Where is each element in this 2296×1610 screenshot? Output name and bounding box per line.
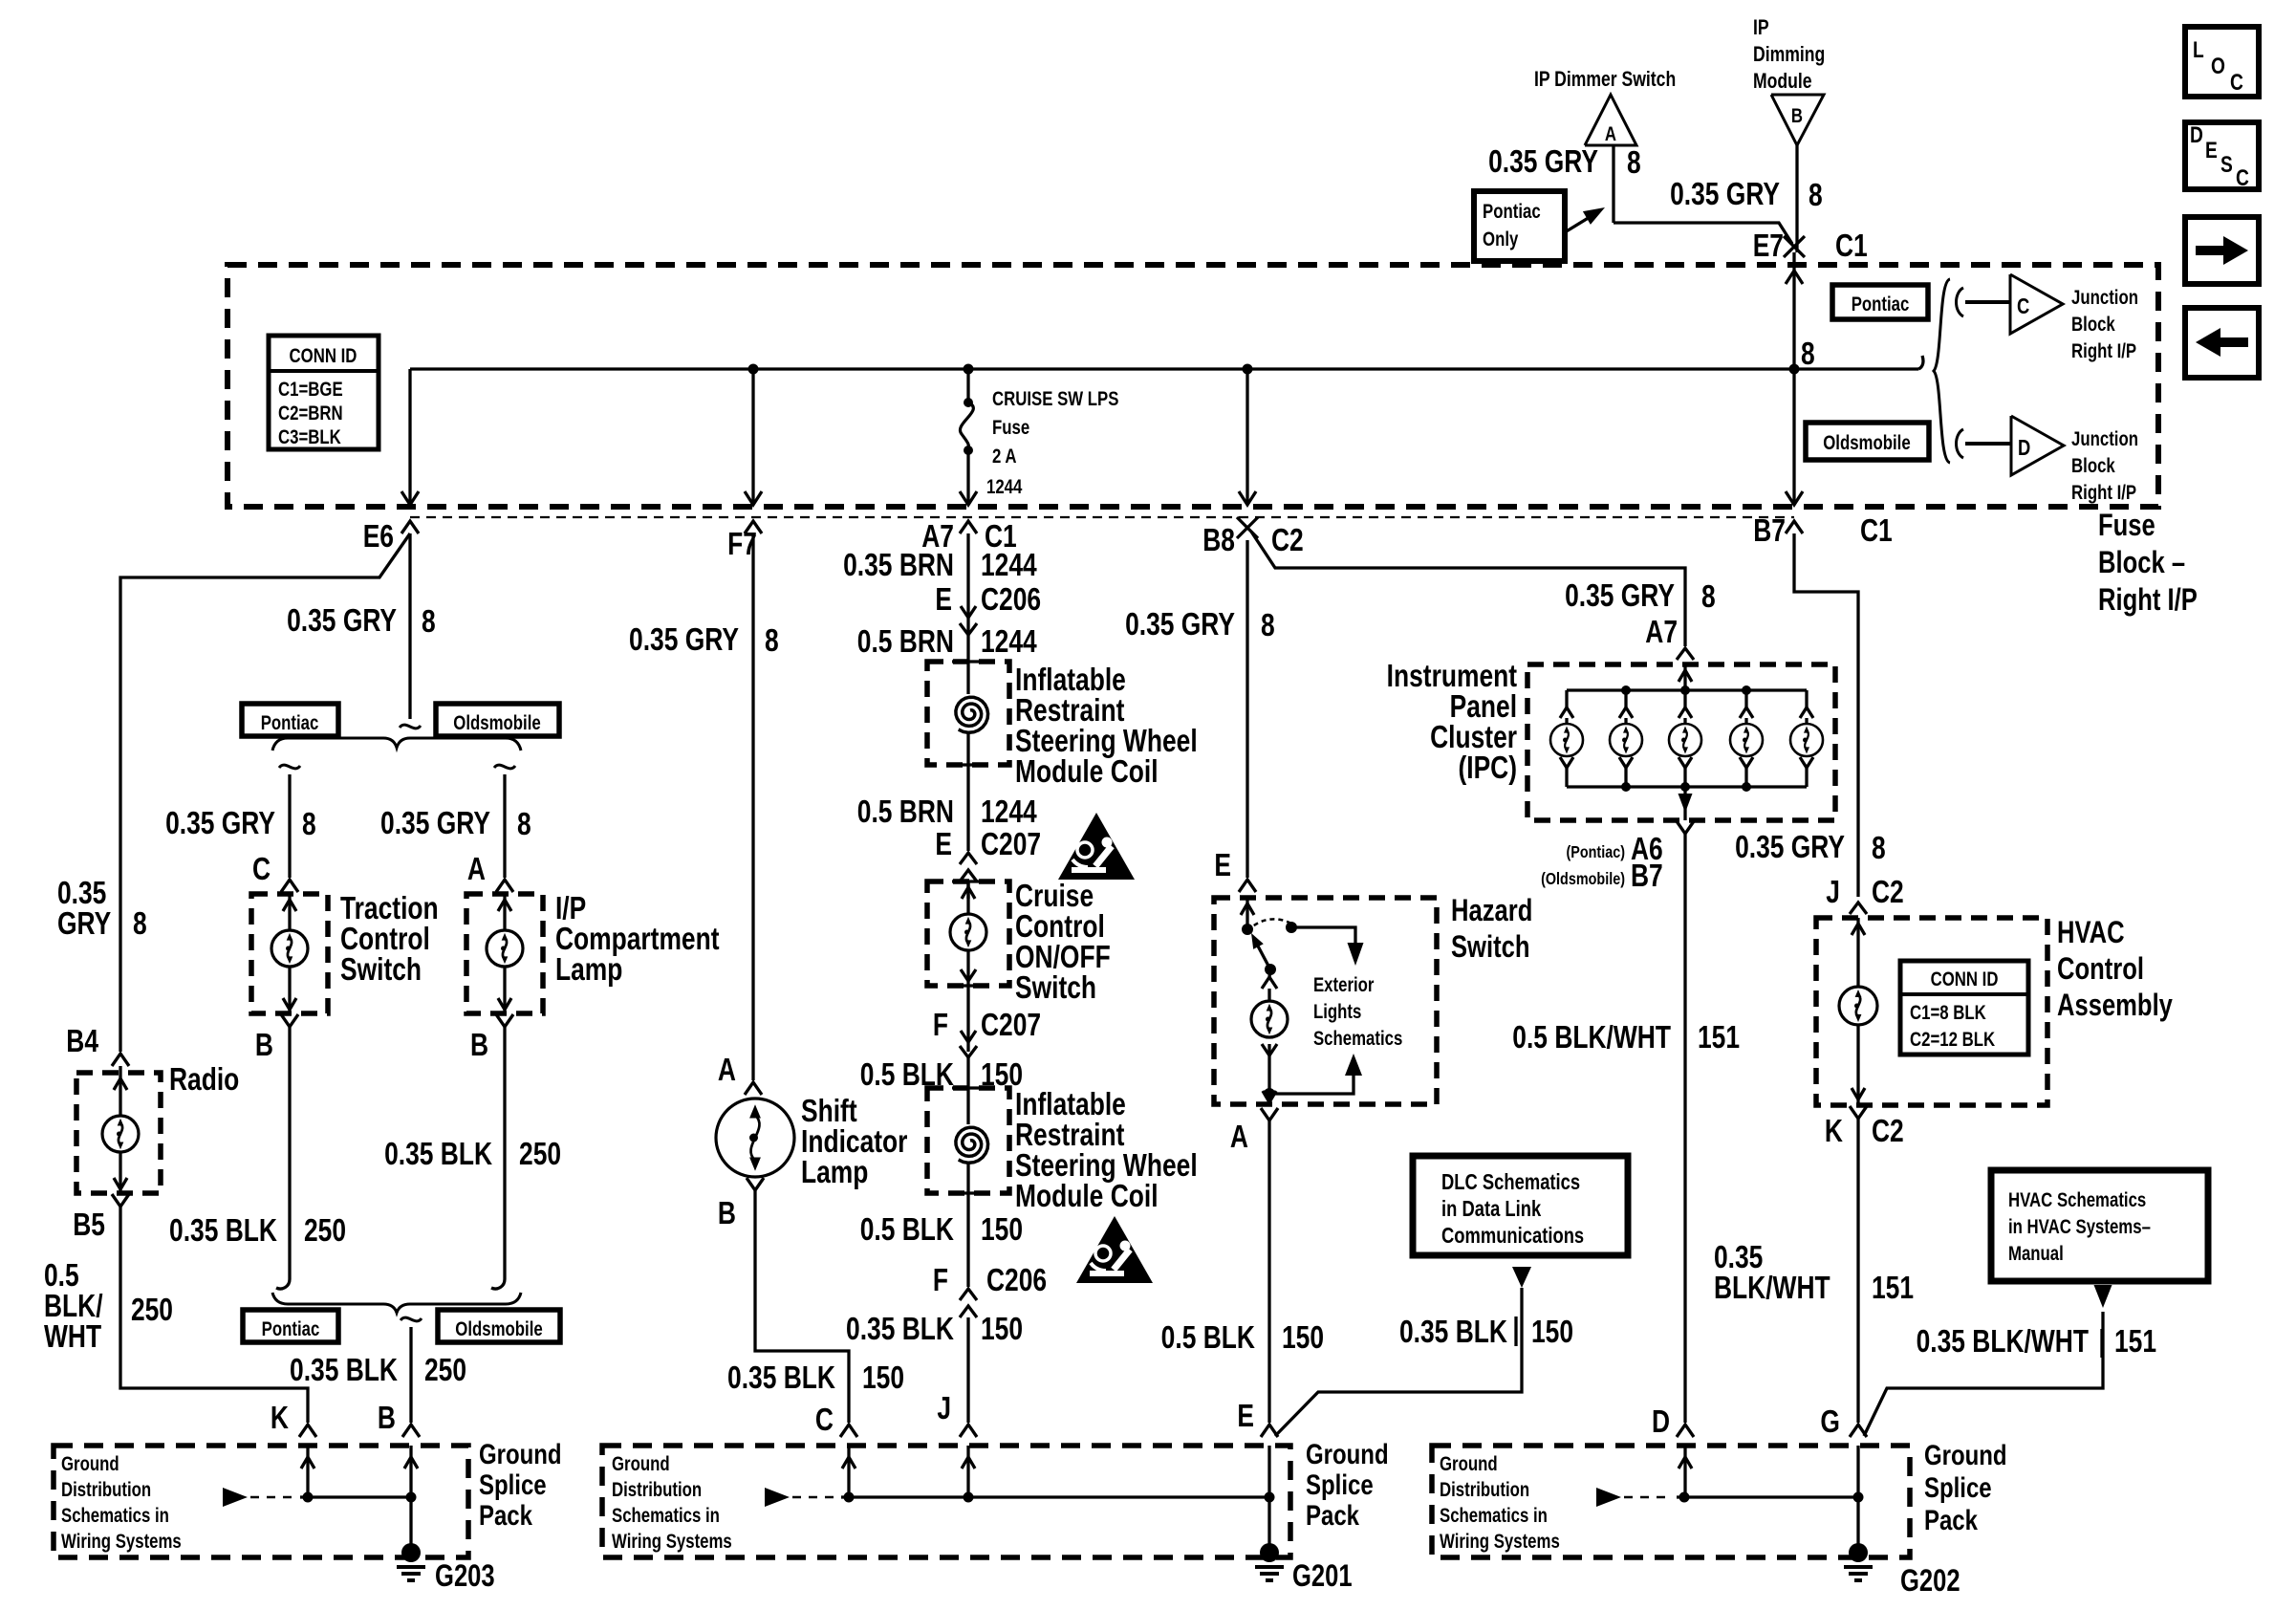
legend box DESC [2185, 122, 2259, 189]
split brace top [272, 738, 521, 751]
fuse block dashed outline [227, 265, 2158, 507]
SIR warning triangle upper [1058, 813, 1135, 880]
svg-text:Pontiac: Pontiac [1852, 294, 1910, 315]
svg-text:L: L [2193, 36, 2204, 63]
svg-text:150: 150 [1282, 1320, 1324, 1355]
svg-text:C2: C2 [1271, 523, 1304, 557]
svg-text:C206: C206 [986, 1263, 1047, 1297]
D wire inside G202 [1683, 1446, 1686, 1497]
svg-text:Traction: Traction [340, 891, 439, 925]
wire C207 to cruise switch [966, 881, 969, 899]
svg-text:0.35 GRY: 0.35 GRY [1670, 177, 1780, 211]
Oldsmobile tag split top [436, 704, 559, 736]
svg-text:8: 8 [1261, 608, 1275, 642]
connector B5 [112, 1194, 129, 1207]
svg-text:Module Coil: Module Coil [1015, 754, 1159, 789]
arrow into B8 [1239, 491, 1256, 505]
svg-text:Pontiac: Pontiac [262, 1318, 320, 1340]
connector E7 C1 crossing [1784, 236, 1805, 257]
ip compartment lamp bulb [487, 930, 523, 967]
svg-text:8: 8 [1872, 831, 1886, 865]
svg-text:C3=BLK: C3=BLK [278, 426, 341, 448]
svg-text:0.35 GRY: 0.35 GRY [1735, 830, 1845, 864]
wire bus to F7 [751, 369, 754, 505]
svg-text:E: E [935, 827, 952, 861]
svg-text:0.35 GRY: 0.35 GRY [1125, 607, 1235, 642]
svg-text:0.5: 0.5 [44, 1258, 79, 1293]
wire E6 down to split [408, 533, 411, 719]
IPC lamp 1 [1565, 690, 1568, 707]
svg-text:G203: G203 [435, 1559, 495, 1593]
radio dashed box [76, 1073, 161, 1193]
svg-text:B: B [1791, 105, 1803, 127]
svg-text:Inflatable: Inflatable [1015, 1087, 1126, 1121]
inflatable restraint coil box lower [927, 1088, 1009, 1193]
svg-text:250: 250 [131, 1293, 173, 1327]
svg-text:Compartment: Compartment [555, 922, 720, 956]
E wire inside G201 to ground [1267, 1446, 1270, 1553]
svg-text:IP: IP [1753, 16, 1769, 39]
svg-text:Shift: Shift [801, 1094, 857, 1128]
wire break tilde E6 split [400, 725, 421, 729]
wire E7 to B7 through fuse block [1792, 252, 1795, 505]
svg-text:Schematics in: Schematics in [612, 1505, 720, 1527]
svg-text:Only: Only [1483, 228, 1519, 250]
HVAC lamp [1839, 987, 1877, 1025]
wire F7 down [751, 533, 754, 1080]
HVAC schematics box [1991, 1170, 2208, 1281]
svg-text:Wiring Systems: Wiring Systems [1440, 1531, 1560, 1553]
svg-text:0.35 BLK/WHT: 0.35 BLK/WHT [1917, 1324, 2089, 1359]
G201 internal arrow [765, 1488, 790, 1507]
svg-text:0.5 BRN: 0.5 BRN [857, 624, 954, 659]
svg-text:0.35 BLK: 0.35 BLK [384, 1137, 492, 1171]
svg-text:250: 250 [304, 1213, 346, 1248]
connector B shift lamp [747, 1178, 764, 1190]
svg-text:E7: E7 [1753, 228, 1784, 263]
svg-text:C1: C1 [1860, 513, 1893, 548]
svg-text:C: C [2236, 164, 2249, 191]
svg-text:B: B [255, 1028, 273, 1062]
svg-text:C2=BRN: C2=BRN [278, 402, 343, 424]
svg-text:1244: 1244 [981, 794, 1037, 829]
svg-text:2 A: 2 A [992, 446, 1017, 468]
svg-text:A: A [1605, 123, 1616, 145]
svg-text:B8: B8 [1202, 523, 1235, 557]
C wire inside G201 [847, 1446, 850, 1497]
DLC schematics box [1413, 1156, 1628, 1255]
wire to junction triangle C [1965, 300, 2010, 304]
wire traction B down [288, 1027, 291, 1279]
hazard wire to exterior lights lower [1264, 1088, 1275, 1099]
svg-text:Cluster: Cluster [1430, 720, 1517, 754]
svg-text:1244: 1244 [986, 476, 1023, 498]
arrow up below E7 entry [1786, 271, 1803, 284]
svg-text:A7: A7 [1645, 615, 1678, 649]
Oldsmobile tag split bottom [438, 1310, 560, 1342]
junction triangle D [2011, 416, 2064, 475]
wire break tilde traction branch [279, 765, 300, 769]
svg-text:0.35 BRN: 0.35 BRN [843, 548, 954, 582]
svg-text:A: A [1230, 1120, 1248, 1154]
svg-text:E6: E6 [363, 519, 394, 554]
wire E6 to radio branch [120, 533, 410, 1052]
ground distribution G201 dashed box [602, 1446, 1290, 1557]
svg-text:J: J [937, 1391, 951, 1425]
svg-text:Pack: Pack [479, 1498, 533, 1531]
svg-text:0.5 BRN: 0.5 BRN [857, 794, 954, 829]
svg-text:0.35 BLK: 0.35 BLK [727, 1360, 835, 1395]
hazard lamp branch [1269, 969, 1270, 977]
svg-text:8: 8 [1701, 579, 1716, 614]
CONN ID table HVAC [1900, 961, 2028, 1055]
Pontiac Only callout box [1474, 191, 1565, 261]
G wire inside G202 to ground [1856, 1446, 1859, 1553]
wire B8 diagonal to IPC feed [1251, 532, 1685, 646]
J wire inside G201 [966, 1446, 969, 1497]
svg-text:Control: Control [1015, 909, 1105, 944]
radio internal wire bottom arrow [119, 1152, 121, 1193]
wire ip lamp B down [503, 1027, 506, 1279]
wire traction branch [288, 774, 291, 878]
svg-text:0.35 GRY: 0.35 GRY [380, 806, 490, 840]
svg-text:(Pontiac): (Pontiac) [1566, 843, 1625, 862]
IPC top bus [1567, 688, 1807, 691]
legend box arrow left [2185, 308, 2259, 378]
legend box arrow right [2185, 217, 2259, 284]
svg-text:151: 151 [1872, 1271, 1914, 1305]
svg-text:B: B [718, 1196, 736, 1230]
wire rejoin down to B [409, 1327, 412, 1423]
svg-text:Distribution: Distribution [612, 1479, 702, 1501]
IPC lamp 4 [1744, 690, 1747, 707]
svg-text:8: 8 [1809, 178, 1823, 212]
radio lamp [102, 1116, 139, 1152]
G201 internal bus [841, 1495, 1269, 1498]
svg-text:B7: B7 [1631, 859, 1663, 893]
svg-text:ON/OFF: ON/OFF [1015, 940, 1111, 974]
connector B7 C1 [1786, 521, 1803, 533]
svg-text:Switch: Switch [340, 952, 422, 987]
ip lamp internal bottom [503, 967, 506, 1013]
svg-text:(Oldsmobile): (Oldsmobile) [1541, 870, 1625, 889]
svg-text:Instrument: Instrument [1387, 659, 1517, 693]
G203 internal arrow [223, 1488, 248, 1507]
svg-text:0.5 BLK: 0.5 BLK [860, 1212, 955, 1247]
wire break tilde ip lamp branch [494, 765, 515, 769]
ground G202 [1849, 1543, 1868, 1562]
ground G203 [401, 1543, 421, 1562]
svg-text:Fuse: Fuse [2098, 509, 2155, 542]
svg-text:Module Coil: Module Coil [1015, 1179, 1159, 1213]
svg-text:Module: Module [1753, 70, 1812, 93]
svg-text:Switch: Switch [1015, 970, 1096, 1005]
svg-text:Distribution: Distribution [1440, 1479, 1529, 1501]
SIR warning triangle lower [1076, 1216, 1153, 1283]
svg-text:Block: Block [2071, 455, 2115, 477]
svg-text:Oldsmobile: Oldsmobile [453, 712, 540, 734]
svg-text:Lights: Lights [1313, 1001, 1361, 1023]
svg-text:Distribution: Distribution [61, 1479, 151, 1501]
connector A hazard [1261, 1108, 1278, 1120]
svg-text:C206: C206 [981, 582, 1041, 617]
svg-text:Lamp: Lamp [801, 1155, 868, 1189]
junction dot fuse branch [964, 364, 974, 375]
IPC feed arrow [1683, 664, 1686, 690]
ground G201 [1260, 1543, 1279, 1562]
HVAC schematics arrow down [2094, 1285, 2112, 1308]
hook to junction D [1957, 429, 1964, 458]
svg-text:Steering Wheel: Steering Wheel [1015, 1148, 1198, 1183]
fuse CRUISE SW LPS 2A [966, 369, 969, 401]
wire bus to E6 [408, 369, 411, 505]
arrow into B7 [1786, 491, 1803, 505]
arrow into A7/C1 [960, 491, 977, 505]
ground distribution G202 dashed box [1432, 1446, 1910, 1557]
connector K C2 HVAC [1850, 1106, 1867, 1119]
svg-text:0.35 BLK: 0.35 BLK [169, 1213, 277, 1248]
hazard lamp bottom [1262, 1044, 1277, 1055]
wire ip lamp branch [503, 774, 506, 878]
svg-text:0.35 GRY: 0.35 GRY [165, 806, 275, 840]
hazard wire to exterior lights upper [1291, 927, 1355, 945]
wire DLC junction to E [1275, 1288, 1522, 1436]
connector E6 [401, 521, 419, 533]
traction control switch dashed box [251, 894, 328, 1013]
wire coil to C207 [966, 765, 969, 851]
IPC lamp 3 [1683, 690, 1686, 707]
triangle connector B IP dimming module [1771, 95, 1824, 145]
svg-text:BLK/WHT: BLK/WHT [1714, 1271, 1830, 1305]
IP compartment lamp dashed box [466, 894, 543, 1013]
svg-text:0.35 BLK: 0.35 BLK [290, 1353, 398, 1387]
svg-text:8: 8 [302, 807, 316, 841]
svg-text:Ground: Ground [1440, 1453, 1498, 1475]
svg-text:in Data Link: in Data Link [1441, 1197, 1542, 1221]
svg-text:0.35 GRY: 0.35 GRY [629, 622, 739, 657]
svg-text:G: G [1820, 1404, 1840, 1439]
IPC bottom bus [1567, 785, 1807, 788]
traction internal wire bottom [288, 967, 291, 1013]
svg-text:I/P: I/P [555, 891, 586, 925]
traction internal wire arrows [288, 894, 291, 930]
svg-text:Communications: Communications [1441, 1224, 1584, 1248]
Pontiac Only arrow [1565, 214, 1594, 232]
svg-text:Cruise: Cruise [1015, 879, 1094, 913]
svg-text:Schematics: Schematics [1313, 1028, 1402, 1050]
K wire inside G203 [306, 1446, 309, 1497]
svg-text:C: C [252, 852, 271, 886]
connector A7 C1 fuse output [960, 521, 977, 533]
hazard switch contacts [1242, 924, 1253, 935]
svg-text:Inflatable: Inflatable [1015, 663, 1126, 697]
svg-text:CONN ID: CONN ID [1931, 968, 1999, 990]
connector B traction [281, 1014, 298, 1027]
svg-text:B: B [378, 1401, 396, 1435]
svg-text:A: A [467, 852, 486, 886]
svg-text:0.35: 0.35 [1714, 1240, 1763, 1274]
connector F7 [745, 521, 762, 533]
svg-text:DLC Schematics: DLC Schematics [1441, 1170, 1580, 1194]
hazard lamp [1251, 1001, 1288, 1037]
svg-text:Control: Control [340, 922, 430, 956]
svg-text:0.35 GRY: 0.35 GRY [287, 603, 397, 638]
svg-text:Wiring Systems: Wiring Systems [61, 1531, 182, 1553]
svg-text:E: E [1237, 1399, 1254, 1433]
svg-text:Ground: Ground [1924, 1438, 2007, 1470]
svg-text:Block –: Block – [2098, 546, 2185, 579]
traction lamp [271, 930, 308, 967]
svg-text:D: D [1652, 1404, 1670, 1439]
svg-text:0.35: 0.35 [57, 876, 106, 910]
svg-text:B7: B7 [1753, 513, 1786, 548]
svg-text:0.35 BLK: 0.35 BLK [1399, 1315, 1507, 1349]
svg-text:151: 151 [2114, 1324, 2156, 1359]
IPC lamp 5 [1805, 690, 1808, 707]
svg-text:Wiring Systems: Wiring Systems [612, 1531, 732, 1553]
svg-text:Right I/P: Right I/P [2071, 482, 2136, 504]
cruise internal bottom [966, 950, 969, 986]
svg-text:Ground: Ground [612, 1453, 670, 1475]
wire IPC output down to D [1683, 834, 1686, 1423]
junction dot E7 wire [1789, 364, 1800, 375]
svg-text:150: 150 [981, 1312, 1023, 1346]
svg-text:0.35 GRY: 0.35 GRY [1565, 578, 1675, 613]
svg-text:HVAC: HVAC [2057, 916, 2125, 949]
svg-text:8: 8 [1627, 145, 1641, 180]
svg-text:Junction: Junction [2071, 287, 2138, 309]
svg-text:Switch: Switch [1451, 930, 1529, 964]
connector B ip lamp [496, 1014, 513, 1027]
inflatable restraint coil box upper [927, 662, 1009, 765]
wire B7 to HVAC [1794, 533, 1858, 897]
svg-text:Splice: Splice [479, 1468, 547, 1500]
svg-text:250: 250 [519, 1137, 561, 1171]
G202 internal arrow [1596, 1488, 1621, 1507]
svg-text:8: 8 [133, 906, 147, 941]
svg-text:Hazard: Hazard [1451, 894, 1532, 927]
svg-text:Manual: Manual [2008, 1243, 2064, 1265]
G203 internal bus [300, 1495, 411, 1498]
svg-text:Splice: Splice [1306, 1468, 1374, 1500]
svg-text:0.35 BLK: 0.35 BLK [846, 1312, 954, 1346]
junction brace [1934, 279, 1950, 463]
svg-text:D: D [2018, 436, 2030, 460]
svg-text:IP Dimmer Switch: IP Dimmer Switch [1534, 68, 1676, 91]
svg-text:Panel: Panel [1450, 689, 1517, 724]
svg-text:C1: C1 [1835, 228, 1868, 263]
wire B8 down to hazard [1245, 540, 1248, 878]
svg-text:Control: Control [2057, 952, 2144, 986]
svg-text:Schematics in: Schematics in [61, 1505, 169, 1527]
DLC arrow down [1512, 1267, 1531, 1288]
svg-text:E: E [2205, 137, 2218, 163]
connector C1 thin dashed line [410, 516, 1794, 518]
svg-text:Indicator: Indicator [801, 1124, 908, 1159]
svg-text:Restraint: Restraint [1015, 1118, 1124, 1152]
hook to junction C [1957, 288, 1964, 316]
wire HVAC K down to G [1856, 1119, 1859, 1423]
Oldsmobile tag junction [1806, 423, 1929, 460]
svg-text:8: 8 [765, 623, 779, 658]
wire to junction triangle D [1965, 442, 2011, 446]
svg-text:Fuse: Fuse [992, 417, 1029, 439]
svg-text:J: J [1826, 875, 1840, 909]
wire dimmer to E7 [1614, 223, 1792, 244]
ground distribution G203 dashed box [54, 1446, 468, 1557]
svg-text:F: F [933, 1263, 948, 1297]
svg-text:CONN ID: CONN ID [290, 345, 357, 367]
junction triangle C [2010, 274, 2063, 334]
svg-text:0.5 BLK: 0.5 BLK [1161, 1320, 1256, 1355]
cruise control lamp [950, 914, 986, 950]
svg-text:Splice: Splice [1924, 1470, 1992, 1503]
svg-text:F: F [933, 1008, 948, 1042]
CONN ID table fuse block [269, 336, 379, 449]
svg-text:Exterior: Exterior [1313, 974, 1375, 996]
svg-text:Pontiac: Pontiac [261, 712, 319, 734]
IPC output arrow [1679, 794, 1693, 813]
svg-text:Pack: Pack [1924, 1503, 1979, 1535]
svg-text:Right I/P: Right I/P [2071, 340, 2136, 362]
legend box LOC [2185, 27, 2259, 97]
svg-text:B4: B4 [66, 1024, 98, 1058]
svg-text:C207: C207 [981, 827, 1041, 861]
wire radio B5 down to K [120, 1207, 308, 1423]
hazard switch dashed box [1214, 898, 1437, 1104]
HVAC control assembly dashed box [1816, 918, 2047, 1105]
svg-text:B: B [470, 1028, 488, 1062]
svg-text:8: 8 [517, 807, 531, 841]
svg-text:K: K [1825, 1114, 1843, 1148]
junction dot F7 branch [748, 364, 759, 375]
wire A7 down [966, 533, 969, 662]
arrow into E6 [401, 491, 419, 505]
connector A6/B7 IPC output [1677, 821, 1694, 834]
svg-text:Oldsmobile: Oldsmobile [455, 1318, 542, 1340]
shift indicator lamp [716, 1099, 794, 1177]
rejoin brace bottom [272, 1293, 521, 1313]
cruise switch internal arrows [966, 881, 969, 914]
svg-text:Pontiac: Pontiac [1483, 201, 1541, 223]
svg-text:Junction: Junction [2071, 428, 2138, 450]
arrow into F7 [745, 491, 762, 505]
Pontiac tag split top [242, 704, 338, 736]
svg-text:8: 8 [422, 604, 436, 639]
svg-text:GRY: GRY [57, 906, 111, 941]
bus wire inside fuse block [410, 367, 1918, 370]
wire shift B down to C [755, 1190, 849, 1423]
svg-text:250: 250 [424, 1353, 466, 1387]
svg-text:Ground: Ground [1306, 1437, 1389, 1469]
svg-text:8: 8 [1801, 337, 1815, 371]
svg-text:Restraint: Restraint [1015, 693, 1124, 728]
hazard feed arrow [1245, 898, 1248, 927]
B wire inside G203 to ground [409, 1446, 412, 1553]
svg-text:Right I/P: Right I/P [2098, 583, 2198, 617]
G202 internal bus [1677, 1495, 1858, 1498]
wire bus to B8 [1245, 369, 1248, 505]
svg-text:Ground: Ground [61, 1453, 119, 1475]
svg-text:B5: B5 [73, 1207, 105, 1242]
svg-text:HVAC Schematics: HVAC Schematics [2008, 1189, 2146, 1211]
svg-text:151: 151 [1698, 1020, 1740, 1055]
svg-text:Dimming: Dimming [1753, 43, 1825, 66]
svg-text:CRUISE SW LPS: CRUISE SW LPS [992, 388, 1118, 410]
svg-text:1244: 1244 [981, 548, 1037, 582]
HVAC feed arrow [1856, 918, 1859, 987]
svg-text:O: O [2211, 53, 2225, 79]
